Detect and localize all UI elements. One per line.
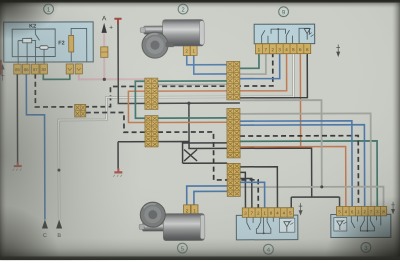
wire blue motor 2 pin2 [187,55,227,64]
wire dashed to switch 3 pin4 [240,136,358,207]
node T branch junction [187,102,190,105]
wire black to switch 4 pin1 [240,172,245,208]
wire blue to switch 3 pin3 [240,121,352,207]
component 1 circle label [44,4,54,14]
wire blue to node C [26,74,45,220]
node B junction [57,169,60,172]
pump 5 pin 1 [191,205,198,217]
node B arrow [56,219,62,239]
red edge mark [0,60,2,75]
block 1 pin 87 [32,64,39,74]
component 9 circle label [279,7,289,17]
ground symbol middle [113,168,122,177]
wire teal long run through left column [135,81,240,118]
svg-text:A: A [102,15,107,22]
harness connector column right group B [227,108,240,158]
washer pump 5 [139,202,205,241]
switch 4 contacts [247,217,274,234]
component 2 circle label [178,4,188,14]
svg-text:86: 86 [24,67,29,72]
switch 3 pin row [336,206,386,216]
switch unit 3 box [331,214,391,237]
switch 9 pin row [255,44,310,54]
wiper motor 2 [140,19,204,58]
continuation arrow right of switch 4 [299,203,303,215]
wire gray feeder to gray junction [240,100,322,187]
wire gray to switch 3 pin8 [240,187,383,207]
wire black branch to connector column [189,103,340,208]
wire black crossover [184,150,197,162]
wire teal switch 9 pin1 [240,54,259,69]
switch unit 4 box [236,215,298,240]
node junction on gray run [320,185,323,188]
mounting block 1 (relay box) [4,22,94,62]
harness connector column left group 1 [145,78,158,109]
relay K2 inner outline [12,29,55,64]
block 1 pin 85 [14,64,21,74]
wire black pin85 to ground [16,74,18,163]
motor 2 pin 2 [183,45,190,56]
fuse F2 [58,28,87,62]
svg-text:87: 87 [33,67,38,72]
switch unit 9 box [254,24,315,44]
wire black to switch 4 pin2 [240,179,252,208]
svg-text:C: C [43,233,47,239]
small joint connector 2x2 [75,104,86,117]
wire blue to pump 5 pin2 [187,186,228,205]
wire black terminal T main run [118,23,240,103]
switch 3 contacts [351,216,381,232]
harness connector column left group 2 [145,116,158,147]
motor 2 pin 1 [190,45,197,56]
wire black to switch 4 pin6 [240,167,277,208]
wire blue motor 2 pin1 [194,55,227,74]
wire black switch 9 pin8 [240,54,308,98]
wire gray between columns [158,83,227,85]
block 1 pin 86 [23,64,30,74]
svg-text:F2: F2 [58,40,64,46]
component 5 circle label [177,243,187,253]
wire blue to switch 3 pin5 [240,125,365,207]
block 1 right pin a [66,64,73,74]
wire dashed pin87 to switch 9 pin3 [35,54,273,107]
switch 9 contacts [262,28,310,44]
wire dashed connector to switch 4 pin3 [86,112,259,208]
wire orange switch 9 pin5 long run [128,54,287,123]
svg-text:+: + [109,24,113,31]
wire teal right run to switch 3 pin7 [240,141,377,207]
switch 3 diode [337,220,347,230]
harness connector column right group A [227,61,240,100]
wire black column to ground 2 [118,141,227,169]
block 1 pin 30 [40,64,47,74]
svg-text:85: 85 [15,67,20,72]
wire orange switch 9 pin7 [240,53,346,206]
svg-text:30: 30 [41,67,46,72]
wire teal jumper pin30 [43,73,70,79]
wire white to node B [59,54,294,220]
wire pink feed A to block 1 [79,33,145,79]
switch 4 diode [284,221,294,232]
continuation arrow left edge [1,65,5,81]
switch 4 pin row [242,208,293,218]
wire gray to switch 3 pin6 [240,113,371,206]
continuation arrow right of switch 9 [336,45,340,57]
wire gray switch 9 pin2 [240,54,266,74]
node A junction [103,78,106,81]
component 4 circle label [263,244,273,254]
terminal T mark [114,19,121,25]
wire blue switch 9 pin4 [240,54,280,79]
pump 5 pin 2 [184,205,191,217]
connector on feed wire A [101,47,108,58]
block 1 right pin b [75,64,82,74]
node C arrow [42,220,48,240]
switch 9 diode [304,29,314,40]
continuation arrow right of switch 3 [391,202,395,214]
wire blue to pump 5 pin1 [194,191,227,205]
component 3 circle label [361,243,371,253]
harness connector column right group C [227,163,240,196]
wire blue to switch 4 pin4 [240,182,264,208]
svg-text:B: B [57,233,61,239]
terminal A label [101,15,113,33]
ground symbol left [13,162,22,171]
